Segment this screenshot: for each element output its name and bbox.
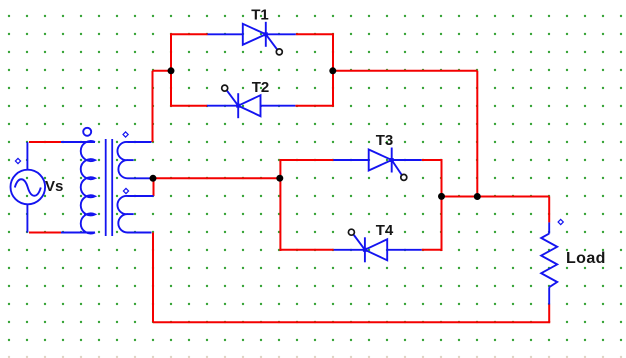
wire: center tap down to lower secondary winding bbox=[153, 178, 155, 196]
thyristor T2 bbox=[207, 85, 295, 118]
wire: center tap to T3/T4 loop left bbox=[153, 177, 280, 179]
junction node D (T3/T4 left) bbox=[276, 175, 283, 182]
source Vs bbox=[11, 142, 46, 233]
wire: Vs bottom to transformer primary red bbox=[29, 232, 61, 234]
wire: bottom return wire bbox=[153, 321, 550, 323]
thyristor T4 bbox=[334, 229, 422, 262]
thyristor T3 bbox=[333, 148, 421, 181]
marker diamond secondary top bbox=[123, 132, 128, 137]
marker diamond near Load bbox=[558, 219, 563, 224]
wire: T1/T2 loop left column bbox=[170, 33, 172, 106]
wire: Vs top to transformer primary red bbox=[29, 141, 61, 143]
wire: stub from node A left bbox=[153, 70, 172, 72]
transformer core bbox=[106, 139, 113, 236]
wire: T3/T4 loop bottom-left red segment bbox=[280, 249, 333, 251]
svg-text:T4: T4 bbox=[376, 222, 394, 239]
svg-text:Vs: Vs bbox=[45, 178, 63, 195]
wire: T3/T4 loop bottom-right red segment bbox=[422, 249, 442, 251]
transformer secondary top winding bbox=[117, 142, 151, 178]
junction node F (load tap) bbox=[474, 193, 481, 200]
transformer polarity circle bbox=[83, 128, 91, 136]
wire: vertical x=477 down to node F bbox=[476, 71, 478, 197]
junction node B (T1/T2 right) bbox=[329, 67, 336, 74]
svg-text:T2: T2 bbox=[252, 79, 270, 96]
marker diamond near Vs bbox=[15, 158, 20, 163]
marker diamond secondary bottom bbox=[123, 188, 128, 193]
wire: T3/T4 loop top-left red segment bbox=[280, 159, 333, 161]
junction node E (T3/T4 right) bbox=[438, 193, 445, 200]
wire: node B right to column x=477 bbox=[333, 70, 478, 72]
svg-text:T3: T3 bbox=[376, 132, 394, 149]
junction node C (center tap) bbox=[150, 175, 157, 182]
wire: T1/T2 loop top-left red segment bbox=[171, 33, 208, 35]
wire: T3/T4 loop left column bbox=[279, 159, 281, 251]
thyristor T1 bbox=[208, 22, 296, 55]
wire: left bottom vertical from secondary bottom bbox=[152, 233, 154, 323]
wire: T3/T4 loop right column bbox=[441, 159, 443, 251]
wire: T1/T2 loop bottom-left red segment bbox=[171, 105, 207, 107]
transformer secondary bottom winding bbox=[117, 196, 153, 233]
wire: load column upper red bbox=[548, 197, 550, 223]
transformer primary winding bbox=[61, 141, 95, 233]
wire: T1/T2 loop bottom-right red segment bbox=[295, 105, 333, 107]
wire: T1/T2 loop top-right red segment bbox=[296, 33, 333, 35]
junction node A (T1/T2 left) bbox=[168, 67, 175, 74]
wire: T3/T4 loop top-right red segment bbox=[422, 159, 442, 161]
wire: vertical from node A down to transformer secondary top bbox=[152, 71, 154, 142]
resistor Load bbox=[541, 222, 557, 304]
svg-text:Load: Load bbox=[566, 250, 606, 267]
svg-text:T1: T1 bbox=[251, 7, 269, 24]
wire: node E to load column bbox=[442, 196, 550, 198]
wire: T1/T2 loop right column bbox=[332, 33, 334, 106]
wire: load column lower red bbox=[548, 305, 550, 323]
